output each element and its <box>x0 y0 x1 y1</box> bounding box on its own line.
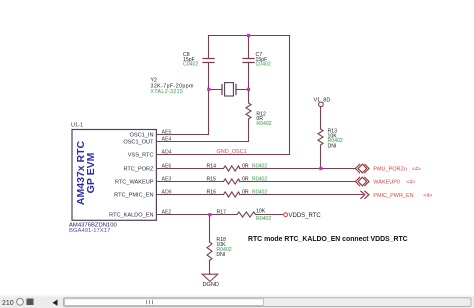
wire crystal stub left <box>209 89 223 91</box>
scrollbar left arrow <box>53 300 58 306</box>
svg-text:R17: R17 <box>217 209 227 215</box>
wire R15 to off-page WAKEUP0 <box>240 181 355 183</box>
resistor R15 <box>224 179 241 184</box>
wire OSC1_OUT pin AE4 <box>157 141 249 143</box>
ground DGND symbol <box>202 274 218 281</box>
wire crystal stub right <box>236 89 249 91</box>
wire OSC1_IN pin AE5 <box>157 134 209 136</box>
junction crystal right <box>247 88 250 91</box>
op-amp U1 chip body AM437x RTC GP EVM <box>72 130 156 221</box>
status icon circle <box>17 298 24 305</box>
svg-text:BGA491-17X17: BGA491-17X17 <box>69 228 110 234</box>
svg-text:RTC_PORZ: RTC_PORZ <box>123 167 154 173</box>
wire R13 to PMU_PORZn net <box>320 145 322 169</box>
power symbol V1_8D <box>319 102 324 107</box>
wire C7 to crystal node <box>248 63 250 90</box>
svg-text:C0402: C0402 <box>256 62 271 68</box>
resistor R16 <box>224 192 241 197</box>
junction R13 / PMU_PORZn <box>319 167 322 170</box>
junction crystal left <box>207 88 210 91</box>
svg-text:RTC mode RTC_KALDO_EN connect: RTC mode RTC_KALDO_EN connect VDDS_RTC <box>248 236 408 243</box>
svg-text:VSS_RTC: VSS_RTC <box>128 153 154 159</box>
svg-text:DNI: DNI <box>328 143 337 149</box>
wire R18 branch down <box>209 215 211 243</box>
crystal Y2 body <box>225 83 234 96</box>
svg-text:0R: 0R <box>242 176 249 182</box>
svg-text:VDDS_RTC: VDDS_RTC <box>289 213 322 219</box>
wire RTC_KALDO_EN pin AE2 to R17 <box>157 214 238 216</box>
off-page connector PMU_PORZn <box>355 164 369 173</box>
svg-text:R15: R15 <box>207 176 217 182</box>
svg-text:R0402: R0402 <box>252 163 267 169</box>
svg-text:PMIC_PWR_EN: PMIC_PWR_EN <box>373 193 413 199</box>
wire RTC_PORZ pin AE6 to R14 <box>157 168 224 170</box>
wire crystal node down to OSC1_IN pin row <box>208 90 210 135</box>
svg-text:<4>: <4> <box>406 180 415 186</box>
wire VSS_RTC pin AD4 <box>157 154 290 156</box>
svg-text:PMU_PORZn: PMU_PORZn <box>373 167 407 173</box>
svg-text:0R: 0R <box>242 163 249 169</box>
capacitor C7 <box>243 59 254 63</box>
svg-text:DGND: DGND <box>203 282 219 288</box>
svg-text:0R: 0R <box>242 190 249 196</box>
wire V1_8D to R13 <box>320 107 322 129</box>
svg-text:RTC_WAKEUP: RTC_WAKEUP <box>115 180 154 186</box>
svg-text:XTAL2-3215: XTAL2-3215 <box>151 89 184 95</box>
wire R17 to VDDS_RTC tap <box>256 214 284 216</box>
status icon dark glyph <box>27 299 34 306</box>
scrollbar thumb <box>65 299 264 306</box>
svg-text:RTC_PMIC_EN: RTC_PMIC_EN <box>114 193 153 199</box>
wire RTC_WAKEUP pin AE3 to R15 <box>157 181 224 183</box>
off-page arrow PMIC_PWR_EN <box>361 191 369 198</box>
svg-text:C0402: C0402 <box>183 62 198 68</box>
junction R17 R18 node <box>208 213 211 216</box>
resistor R17 <box>237 212 255 217</box>
svg-text:WAKEUP0: WAKEUP0 <box>373 180 400 186</box>
scrollbar track <box>64 298 472 307</box>
svg-text:R0402: R0402 <box>256 121 271 127</box>
crystal Y2 plates <box>222 85 236 95</box>
svg-text:OSC1_OUT: OSC1_OUT <box>123 140 154 146</box>
resistor R13 vertical <box>318 129 323 145</box>
status bar background <box>0 297 474 308</box>
svg-text:10K: 10K <box>256 209 266 215</box>
svg-text:GP EVM: GP EVM <box>85 152 97 193</box>
svg-text:DNI: DNI <box>216 252 225 258</box>
junction top wire / C7 branch <box>247 34 250 37</box>
net tap circle VDDS_RTC <box>284 213 288 217</box>
off-page connector WAKEUP0 <box>355 177 369 186</box>
scrollbar grip <box>147 300 153 304</box>
svg-text:<4>: <4> <box>412 167 421 173</box>
svg-text:210: 210 <box>2 300 14 307</box>
wire C7 branch top to C7 <box>248 36 250 59</box>
svg-text:R16: R16 <box>207 190 217 196</box>
resistor R18 vertical <box>207 242 212 260</box>
svg-text:R14: R14 <box>207 163 217 169</box>
wire crystal node to R12 <box>248 90 250 104</box>
svg-text:R0402: R0402 <box>256 216 271 222</box>
svg-text:<4>: <4> <box>423 193 432 199</box>
wire C8 to crystal node <box>208 63 210 90</box>
svg-text:GND_OSC1: GND_OSC1 <box>217 149 247 155</box>
svg-text:RTC_KALDO_EN: RTC_KALDO_EN <box>109 213 153 219</box>
svg-text:OSC1_IN: OSC1_IN <box>130 133 154 139</box>
svg-text:V1_8D: V1_8D <box>314 97 331 103</box>
svg-text:U1-1: U1-1 <box>71 123 83 129</box>
wire R12 to OSC1_OUT row <box>248 119 250 142</box>
wire R14 to off-page PMU_PORZn <box>240 168 355 170</box>
resistor R14 <box>224 166 241 171</box>
wire R18 to ground <box>209 261 211 275</box>
svg-text:R0402: R0402 <box>252 190 267 196</box>
wire top net GND_OSC1 horizontal <box>209 35 290 37</box>
wire R16 to arrow PMIC_PWR_EN <box>240 194 363 196</box>
wire RTC_PMIC_EN pin AD6 to R16 <box>157 194 224 196</box>
wire left branch top to C8 <box>208 36 210 59</box>
wire right loop vertical GND_OSC1 <box>289 36 291 155</box>
capacitor C8 <box>203 59 214 63</box>
svg-text:R0402: R0402 <box>252 176 267 182</box>
resistor R12 vertical <box>246 103 251 119</box>
